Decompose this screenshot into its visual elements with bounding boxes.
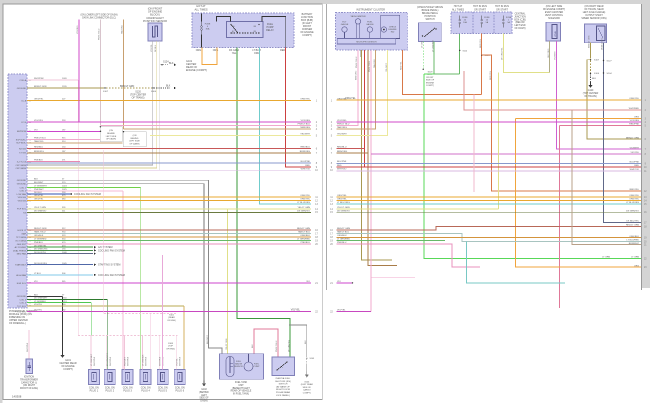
svg-text:BRAKE PEDAL): BRAKE PEDAL) xyxy=(422,9,439,12)
svg-text:OF FIREWALL): OF FIREWALL) xyxy=(9,322,26,325)
svg-text:(ON RIGHT REAR: (ON RIGHT REAR xyxy=(585,5,604,8)
svg-text:VIO/YEL: VIO/YEL xyxy=(34,304,43,306)
svg-text:CAPACITOR (-): CAPACITOR (-) xyxy=(21,381,37,384)
svg-text:G120: G120 xyxy=(588,90,594,92)
svg-text:LT GRN/BLK: LT GRN/BLK xyxy=(143,354,145,366)
svg-text:RED: RED xyxy=(305,165,310,167)
svg-text:COOLING FAN SYSTEM: COOLING FAN SYSTEM xyxy=(74,193,101,196)
svg-text:SCP BUS-: SCP BUS- xyxy=(16,143,26,145)
svg-text:CENTRAL: CENTRAL xyxy=(515,13,526,16)
svg-text:WHT/VIO: WHT/VIO xyxy=(337,168,347,170)
svg-text:REAR OF VEHICLE: REAR OF VEHICLE xyxy=(231,390,252,393)
svg-text:TACHOMETER: TACHOMETER xyxy=(350,15,366,18)
svg-text:(AT BASE OF: (AT BASE OF xyxy=(276,385,290,388)
svg-text:VIO/WHT: VIO/WHT xyxy=(555,51,557,60)
svg-text:OF DASH): OF DASH) xyxy=(130,143,140,146)
svg-text:OF ENG): OF ENG) xyxy=(166,348,175,350)
svg-text:VSS SIG: VSS SIG xyxy=(18,197,27,199)
svg-text:LT BLU: LT BLU xyxy=(34,273,41,275)
svg-text:BRAKE PEDAL: BRAKE PEDAL xyxy=(422,12,439,15)
svg-text:S101: S101 xyxy=(169,315,175,317)
svg-text:PNK/LT BLU: PNK/LT BLU xyxy=(337,124,350,126)
svg-text:VIO: VIO xyxy=(306,281,310,283)
svg-text:JUNCTION: JUNCTION xyxy=(514,16,526,18)
svg-text:ORG/YEL: ORG/YEL xyxy=(300,199,311,201)
svg-text:KICK PANEL): KICK PANEL) xyxy=(276,394,290,397)
svg-text:SWITCH: SWITCH xyxy=(279,384,288,386)
svg-text:AC POWER: AC POWER xyxy=(15,246,27,249)
svg-text:BRN/ORG: BRN/ORG xyxy=(355,70,357,80)
svg-text:DK GRN/VIO: DK GRN/VIO xyxy=(626,210,639,212)
svg-text:ENGINE: ENGINE xyxy=(426,82,435,84)
svg-text:WHT/PNK: WHT/PNK xyxy=(146,356,148,366)
svg-text:RED/LT GRN: RED/LT GRN xyxy=(34,228,47,230)
svg-text:LT BLU/ORG: LT BLU/ORG xyxy=(297,202,310,204)
svg-text:G102: G102 xyxy=(201,389,207,391)
svg-text:PUMP: PUMP xyxy=(254,366,260,368)
svg-text:140308: 140308 xyxy=(12,395,22,399)
svg-text:G104: G104 xyxy=(304,382,310,384)
svg-text:POSITION SENSOR: POSITION SENSOR xyxy=(143,19,167,23)
svg-text:VIO/YEL: VIO/YEL xyxy=(177,357,179,366)
svg-text:YEL/WHT: YEL/WHT xyxy=(300,134,310,136)
svg-text:ORG/YEL: ORG/YEL xyxy=(629,199,640,201)
svg-text:VIO/WHT: VIO/WHT xyxy=(630,147,640,149)
svg-text:BRN/LT GRN: BRN/LT GRN xyxy=(626,137,639,139)
svg-text:ORG/BLK: ORG/BLK xyxy=(34,235,44,237)
svg-text:PNK/LT BLU: PNK/LT BLU xyxy=(369,60,371,72)
svg-text:CC B: CC B xyxy=(21,122,27,124)
svg-text:ORG: ORG xyxy=(196,49,202,52)
svg-text:DK GRN/YEL: DK GRN/YEL xyxy=(34,245,47,247)
svg-text:COMPT): COMPT) xyxy=(302,34,312,37)
svg-text:PNK/BLU: PNK/BLU xyxy=(34,242,43,244)
svg-text:S127: S127 xyxy=(607,60,613,62)
svg-text:INSTRUMENT CLUSTER: INSTRUMENT CLUSTER xyxy=(356,9,385,12)
svg-text:RED: RED xyxy=(337,165,342,167)
svg-text:ORG/YEL: ORG/YEL xyxy=(34,199,44,201)
svg-text:3-2 TCCS: 3-2 TCCS xyxy=(17,161,27,163)
svg-text:ORG/YEL: ORG/YEL xyxy=(337,99,348,101)
svg-text:IND: IND xyxy=(391,32,395,34)
svg-text:DK BLU: DK BLU xyxy=(155,44,157,52)
svg-text:PLUG 2: PLUG 2 xyxy=(106,389,115,392)
svg-text:YEL/WHT: YEL/WHT xyxy=(386,62,388,72)
svg-text:VIO: VIO xyxy=(34,130,38,132)
svg-text:VIO/ORG: VIO/ORG xyxy=(34,120,43,122)
svg-text:TAN/ORG: TAN/ORG xyxy=(337,126,347,129)
svg-text:BLU/PNK: BLU/PNK xyxy=(337,161,347,163)
svg-text:DK GRN/VIO: DK GRN/VIO xyxy=(337,210,350,212)
svg-text:BRN/ORG: BRN/ORG xyxy=(34,151,44,153)
svg-text:TAN/ORG: TAN/ORG xyxy=(300,126,310,129)
svg-text:LEFT END: LEFT END xyxy=(514,25,525,27)
svg-text:GRY/ORG: GRY/ORG xyxy=(548,48,550,58)
svg-text:BRN/ORG: BRN/ORG xyxy=(300,151,311,153)
svg-text:RED/YEL: RED/YEL xyxy=(630,189,640,191)
svg-text:CKP SENS: CKP SENS xyxy=(16,168,27,170)
svg-text:OF TRANS, NEAR: OF TRANS, NEAR xyxy=(584,8,604,11)
svg-text:RIGHT DOOR: RIGHT DOOR xyxy=(276,389,290,391)
svg-text:CKP SENS: CKP SENS xyxy=(16,165,27,167)
svg-text:BLK/WHT: BLK/WHT xyxy=(34,182,44,184)
svg-text:RED/YEL: RED/YEL xyxy=(401,61,403,70)
svg-text:LT BLU/RED: LT BLU/RED xyxy=(627,240,640,242)
svg-text:PNK/LT BLU: PNK/LT BLU xyxy=(99,28,101,40)
svg-text:MAF: MAF xyxy=(22,232,27,235)
svg-text:SPEED SENSOR (OSS): SPEED SENSOR (OSS) xyxy=(581,18,606,20)
svg-text:TAN/ORG: TAN/ORG xyxy=(373,59,376,68)
svg-text:EGR SOL: EGR SOL xyxy=(17,283,27,285)
svg-text:COIL 2: COIL 2 xyxy=(19,191,26,193)
svg-text:OF TRANS): OF TRANS) xyxy=(132,97,145,100)
svg-text:(BELOW: (BELOW xyxy=(515,22,525,24)
svg-text:OR START: OR START xyxy=(474,8,486,11)
svg-text:RED: RED xyxy=(280,49,285,52)
svg-text:WHT/RED: WHT/RED xyxy=(629,108,640,110)
svg-text:BLK: BLK xyxy=(305,340,307,344)
svg-text:WHT/PNK: WHT/PNK xyxy=(180,356,182,366)
svg-text:OF DASH): OF DASH) xyxy=(515,27,526,30)
svg-text:LT GRN: LT GRN xyxy=(421,40,423,48)
svg-text:ORG: ORG xyxy=(634,117,639,119)
svg-text:BLU/PNK: BLU/PNK xyxy=(301,161,311,163)
svg-text:SWITCH: SWITCH xyxy=(425,19,434,21)
svg-text:CC A: CC A xyxy=(21,99,26,102)
svg-text:DK GRN/VIO: DK GRN/VIO xyxy=(34,211,47,213)
svg-text:BLK: BLK xyxy=(169,62,174,65)
svg-text:RED/BLU: RED/BLU xyxy=(301,147,311,149)
svg-text:LT GRN/RED: LT GRN/RED xyxy=(297,239,310,241)
svg-text:(TOP CENTER: (TOP CENTER xyxy=(583,93,599,95)
svg-text:OF TRANS): OF TRANS) xyxy=(584,95,597,98)
svg-text:BRN/WHT: BRN/WHT xyxy=(629,243,640,245)
svg-text:IGNITION: IGNITION xyxy=(24,377,35,379)
svg-text:TAN/LT BLU: TAN/LT BLU xyxy=(337,231,349,234)
svg-text:ORG/BLK: ORG/BLK xyxy=(337,235,347,237)
svg-text:BLK: BLK xyxy=(34,178,39,180)
svg-text:LT BLU/ORG: LT BLU/ORG xyxy=(626,202,639,204)
svg-text:COMPT): COMPT) xyxy=(63,368,73,371)
svg-text:OF ENG): OF ENG) xyxy=(167,320,176,322)
svg-text:RED/BLU: RED/BLU xyxy=(34,147,44,149)
svg-text:PNK/LT BLU: PNK/LT BLU xyxy=(356,56,358,68)
svg-text:DK GRN/YEL: DK GRN/YEL xyxy=(288,339,290,352)
svg-text:COIL 1: COIL 1 xyxy=(19,187,26,189)
svg-text:S107: S107 xyxy=(103,91,109,93)
svg-text:SIDE OF: SIDE OF xyxy=(426,80,435,82)
svg-text:PLUG 6: PLUG 6 xyxy=(176,389,185,392)
svg-text:(ON: (ON xyxy=(133,135,137,137)
svg-text:OR START: OR START xyxy=(496,8,508,11)
svg-text:BEHIND: BEHIND xyxy=(107,133,115,135)
svg-text:VIO: VIO xyxy=(337,281,341,283)
svg-text:LT GRN/RED: LT GRN/RED xyxy=(337,239,350,241)
svg-text:EVAP CANISTER: EVAP CANISTER xyxy=(545,11,564,14)
svg-text:IN FUEL TANK): IN FUEL TANK) xyxy=(233,393,249,396)
svg-text:BLK: BLK xyxy=(592,78,597,80)
svg-text:DK BLU: DK BLU xyxy=(34,192,42,194)
svg-text:ORG: ORG xyxy=(213,49,219,52)
svg-text:TFT SENS: TFT SENS xyxy=(16,237,27,239)
svg-text:(ON LEFT SIDE: (ON LEFT SIDE xyxy=(546,6,563,8)
svg-text:START/ALT: START/ALT xyxy=(15,264,27,267)
svg-text:HIGH FAN: HIGH FAN xyxy=(16,274,26,277)
svg-text:SHUTOFF (IFS): SHUTOFF (IFS) xyxy=(275,381,291,383)
svg-text:LEFT AXLE FLANGE): LEFT AXLE FLANGE) xyxy=(583,11,606,14)
svg-text:DK GRN/WHT: DK GRN/WHT xyxy=(107,352,109,366)
svg-text:PNK/WHT: PNK/WHT xyxy=(125,356,127,366)
svg-text:BRN/ORG: BRN/ORG xyxy=(337,151,348,153)
svg-text:S108: S108 xyxy=(168,343,174,345)
svg-text:LT GRN/RED: LT GRN/RED xyxy=(34,239,47,241)
svg-text:PILLAR NEAR: PILLAR NEAR xyxy=(276,391,291,394)
svg-text:RED/BLU: RED/BLU xyxy=(337,147,347,149)
svg-text:PNK/BLU: PNK/BLU xyxy=(301,242,311,244)
svg-text:ORG/YEL: ORG/YEL xyxy=(300,99,311,101)
svg-text:ORG/BLK: ORG/BLK xyxy=(300,235,310,237)
svg-text:RED/LT GRN: RED/LT GRN xyxy=(337,228,350,230)
svg-text:PLUG 4: PLUG 4 xyxy=(141,389,150,392)
svg-text:COOLING FAN SYSTEM: COOLING FAN SYSTEM xyxy=(98,274,125,277)
svg-text:TRANSFORMER: TRANSFORMER xyxy=(20,378,38,381)
svg-text:DK GRN/VIO: DK GRN/VIO xyxy=(297,210,310,212)
svg-text:TAN/LT BLU: TAN/LT BLU xyxy=(298,231,310,234)
svg-text:VENT CONTROL: VENT CONTROL xyxy=(545,15,564,17)
svg-text:PNK/BLK: PNK/BLK xyxy=(34,160,43,162)
svg-text:TAN/ORG: TAN/ORG xyxy=(121,25,124,34)
svg-text:PLUG 5: PLUG 5 xyxy=(158,389,167,392)
svg-text:OUTPUT SHAFT: OUTPUT SHAFT xyxy=(585,14,603,17)
svg-text:LT GRN/WHT: LT GRN/WHT xyxy=(34,186,47,188)
svg-text:VIO/ORG: VIO/ORG xyxy=(337,120,347,122)
svg-text:DASH): DASH) xyxy=(200,400,207,403)
svg-text:CARGO: CARGO xyxy=(303,389,311,392)
svg-text:(ON RIGHT: (ON RIGHT xyxy=(23,385,36,387)
svg-text:SIDE OF: SIDE OF xyxy=(199,398,209,400)
svg-text:PLUG 3: PLUG 3 xyxy=(123,389,132,392)
svg-text:VIO/ORG: VIO/ORG xyxy=(301,120,311,122)
svg-text:BEHIND: BEHIND xyxy=(131,138,139,140)
svg-text:ECT SENS: ECT SENS xyxy=(16,240,27,242)
svg-text:VIO/YEL: VIO/YEL xyxy=(34,310,43,312)
svg-text:GAUGE: GAUGE xyxy=(341,23,349,26)
svg-text:YEL/LT GRN: YEL/LT GRN xyxy=(297,207,310,209)
svg-text:YEL/LT GRN: YEL/LT GRN xyxy=(337,207,350,209)
svg-text:LT GRN/BLK: LT GRN/BLK xyxy=(34,301,47,303)
svg-text:VIO/YEL: VIO/YEL xyxy=(151,43,153,52)
svg-text:UNIT: UNIT xyxy=(238,385,244,387)
svg-text:SENSOR: SENSOR xyxy=(234,366,243,368)
svg-text:GROUND: GROUND xyxy=(17,183,27,185)
svg-text:WHT/VIO: WHT/VIO xyxy=(301,168,311,170)
svg-text:FCP SOL: FCP SOL xyxy=(17,209,27,211)
svg-text:COIL A: COIL A xyxy=(19,79,26,82)
svg-text:GROUND: GROUND xyxy=(17,180,27,182)
svg-text:SOLENOID: SOLENOID xyxy=(548,18,560,20)
svg-text:WHT/VIO: WHT/VIO xyxy=(630,169,640,171)
svg-text:ENGINE (COMPT): ENGINE (COMPT) xyxy=(186,69,207,72)
svg-text:VIO: VIO xyxy=(34,281,38,283)
svg-text:PNK/LT BLU: PNK/LT BLU xyxy=(276,340,278,352)
svg-text:BLK: BLK xyxy=(34,295,39,297)
svg-text:PNK/WHT: PNK/WHT xyxy=(34,189,44,191)
svg-text:WHT/PNK: WHT/PNK xyxy=(34,78,44,80)
svg-text:PNK/LT BLU: PNK/LT BLU xyxy=(34,138,46,140)
svg-text:YEL/LT GRN: YEL/LT GRN xyxy=(34,207,46,209)
svg-text:VPWR: VPWR xyxy=(555,30,557,37)
svg-text:YEL/WHT: YEL/WHT xyxy=(337,134,347,136)
svg-text:ORG: ORG xyxy=(634,265,639,267)
svg-text:DK GRN/|YEL: DK GRN/|YEL xyxy=(502,46,504,60)
svg-text:PNK/LT BLU: PNK/LT BLU xyxy=(298,124,311,126)
svg-text:STARTING SYSTEM: STARTING SYSTEM xyxy=(98,264,120,267)
svg-text:RED/|YEL: RED/|YEL xyxy=(490,70,492,80)
svg-text:BRN/LT GRN: BRN/LT GRN xyxy=(34,86,47,88)
svg-text:WHT/PNK: WHT/PNK xyxy=(110,356,112,366)
svg-text:GEN RST: GEN RST xyxy=(17,244,27,246)
svg-text:WHT/PNK: WHT/PNK xyxy=(127,356,129,366)
svg-text:(REAR: (REAR xyxy=(168,316,175,319)
svg-text:S104: S104 xyxy=(607,73,613,75)
svg-text:RELAY: RELAY xyxy=(266,29,274,32)
svg-text:OF DASH): OF DASH) xyxy=(106,138,116,141)
svg-text:DK GRN/ORG: DK GRN/ORG xyxy=(34,249,48,251)
svg-text:(ON: (ON xyxy=(109,130,113,132)
svg-text:(BEHIND: (BEHIND xyxy=(199,392,209,394)
svg-text:BOX (CJB): BOX (CJB) xyxy=(514,19,526,21)
svg-text:EEPROM: EEPROM xyxy=(17,131,26,133)
svg-text:ORG/YEL: ORG/YEL xyxy=(629,98,640,100)
svg-text:RED/PNK: RED/PNK xyxy=(629,124,639,126)
svg-text:30A: 30A xyxy=(206,28,210,31)
svg-text:ORG: ORG xyxy=(254,52,260,55)
svg-text:ORG/YEL: ORG/YEL xyxy=(34,99,44,101)
svg-text:VIO/YEL: VIO/YEL xyxy=(291,309,301,312)
svg-text:DATA LINK CONNECTOR (DLC): DATA LINK CONNECTOR (DLC) xyxy=(82,17,116,20)
svg-text:BLK/WHT: BLK/WHT xyxy=(207,334,209,344)
svg-text:LEFT SIDE: LEFT SIDE xyxy=(106,136,117,138)
svg-text:BLU/PNK: BLU/PNK xyxy=(630,162,640,164)
svg-text:LT GRN/RED: LT GRN/RED xyxy=(432,40,434,52)
svg-text:COMPT): COMPT) xyxy=(303,392,312,394)
svg-text:VIO/YEL: VIO/YEL xyxy=(337,310,346,312)
svg-text:S104: S104 xyxy=(594,73,600,75)
svg-text:ORG/YEL: ORG/YEL xyxy=(629,195,640,197)
svg-text:INERTIA FUEL: INERTIA FUEL xyxy=(276,377,291,380)
svg-text:PNK/BLU: PNK/BLU xyxy=(337,242,347,244)
svg-text:(CHECK/VIOLET ABOVE: (CHECK/VIOLET ABOVE xyxy=(417,6,443,9)
svg-text:LEFT: LEFT xyxy=(201,395,207,397)
svg-text:SCP BUS+: SCP BUS+ xyxy=(16,139,27,141)
svg-text:BLK: BLK xyxy=(252,344,254,348)
svg-text:PLUG 1: PLUG 1 xyxy=(90,389,99,392)
svg-text:VSS SIG: VSS SIG xyxy=(18,200,27,202)
svg-text:DK GRN/WHT: DK GRN/WHT xyxy=(34,298,48,300)
svg-text:LT GRN: LT GRN xyxy=(631,257,639,259)
svg-text:DK BLU/ORG: DK BLU/ORG xyxy=(34,263,47,265)
svg-text:COIL 3: COIL 3 xyxy=(19,299,26,301)
svg-text:TX SIG: TX SIG xyxy=(19,153,26,155)
svg-text:TCC SOL: TCC SOL xyxy=(17,311,27,313)
svg-text:ORG/YEL: ORG/YEL xyxy=(34,195,44,197)
svg-text:FRONT: FRONT xyxy=(426,77,434,79)
svg-text:RED/LT GRN: RED/LT GRN xyxy=(297,228,310,230)
svg-text:ALL TIMES: ALL TIMES xyxy=(194,7,207,11)
svg-text:LEFT: LEFT xyxy=(427,74,433,76)
svg-text:S104: S104 xyxy=(151,91,157,93)
svg-text:GROUND: GROUND xyxy=(17,88,27,90)
svg-text:S107: S107 xyxy=(594,60,600,62)
svg-text:MICROPROCESSOR: MICROPROCESSOR xyxy=(356,42,377,44)
svg-text:VIO/YEL: VIO/YEL xyxy=(630,152,639,154)
svg-text:LT GRN: LT GRN xyxy=(602,257,610,259)
svg-text:DUAL PRESS: DUAL PRESS xyxy=(13,249,27,252)
svg-text:YEL/LT GRN: YEL/LT GRN xyxy=(226,338,228,350)
svg-text:RX SIG: RX SIG xyxy=(19,148,26,150)
svg-text:(BENEATH LEFT: (BENEATH LEFT xyxy=(232,387,250,390)
svg-text:FRONT OF ENG): FRONT OF ENG) xyxy=(20,388,38,390)
svg-text:RED: RED xyxy=(634,165,639,167)
svg-text:LEFT SIDE: LEFT SIDE xyxy=(129,141,140,143)
svg-text:LT GRN/WHT: LT GRN/WHT xyxy=(91,353,93,366)
svg-text:WHT/PNK: WHT/PNK xyxy=(160,356,162,366)
svg-text:BRN/LT GRN: BRN/LT GRN xyxy=(120,85,135,88)
svg-text:ORG/YEL: ORG/YEL xyxy=(300,195,311,197)
svg-text:DK BLU/YEL: DK BLU/YEL xyxy=(34,252,47,254)
svg-text:ORG/YEL: ORG/YEL xyxy=(337,199,348,201)
svg-text:(TOP: (TOP xyxy=(168,346,174,348)
svg-text:POSITION: POSITION xyxy=(425,16,436,18)
svg-text:LT BLU/ORG: LT BLU/ORG xyxy=(337,202,350,204)
svg-text:BLK: BLK xyxy=(166,86,171,88)
svg-text:SIDE OF: SIDE OF xyxy=(303,387,312,389)
svg-text:MED FAN: MED FAN xyxy=(17,253,27,256)
svg-text:GAUGE: GAUGE xyxy=(366,23,374,26)
svg-text:ORG/BLK: ORG/BLK xyxy=(629,236,639,238)
svg-text:FUEL TANK: FUEL TANK xyxy=(235,381,248,384)
svg-text:RED/|YEL: RED/|YEL xyxy=(480,38,482,48)
svg-text:VIO/ORG: VIO/ORG xyxy=(630,120,640,122)
svg-text:RED/LT GRN: RED/LT GRN xyxy=(626,225,639,227)
svg-text:S129: S129 xyxy=(428,72,434,74)
svg-text:DK BLU/YEL: DK BLU/YEL xyxy=(626,221,639,223)
svg-text:(ON LOWER LEFT SIDE OF DASH): (ON LOWER LEFT SIDE OF DASH) xyxy=(80,14,117,17)
svg-text:TAN/LT BLU: TAN/LT BLU xyxy=(34,231,46,234)
svg-text:COOLING FAN SYSTEM: COOLING FAN SYSTEM xyxy=(98,249,125,252)
svg-text:COIL 4: COIL 4 xyxy=(19,303,26,305)
svg-text:TCC SOL: TCC SOL xyxy=(17,306,27,308)
svg-text:(LEFT REAR: (LEFT REAR xyxy=(301,383,314,386)
svg-text:OF ENGINE COMPT): OF ENGINE COMPT) xyxy=(543,9,566,11)
svg-text:HO2S 12: HO2S 12 xyxy=(17,230,26,232)
svg-text:COMPT): COMPT) xyxy=(426,85,435,87)
svg-text:WHT/PNK: WHT/PNK xyxy=(27,342,29,352)
svg-text:YEL: YEL xyxy=(232,52,237,55)
svg-text:ALL TIMES: ALL TIMES xyxy=(452,8,464,11)
svg-text:ORG/YEL: ORG/YEL xyxy=(337,195,348,197)
svg-text:WHT/PNK: WHT/PNK xyxy=(94,356,96,366)
svg-text:GROUND: GROUND xyxy=(17,296,27,298)
svg-text:LOW FAN: LOW FAN xyxy=(17,193,27,196)
svg-text:TAN/ORG: TAN/ORG xyxy=(34,140,44,143)
